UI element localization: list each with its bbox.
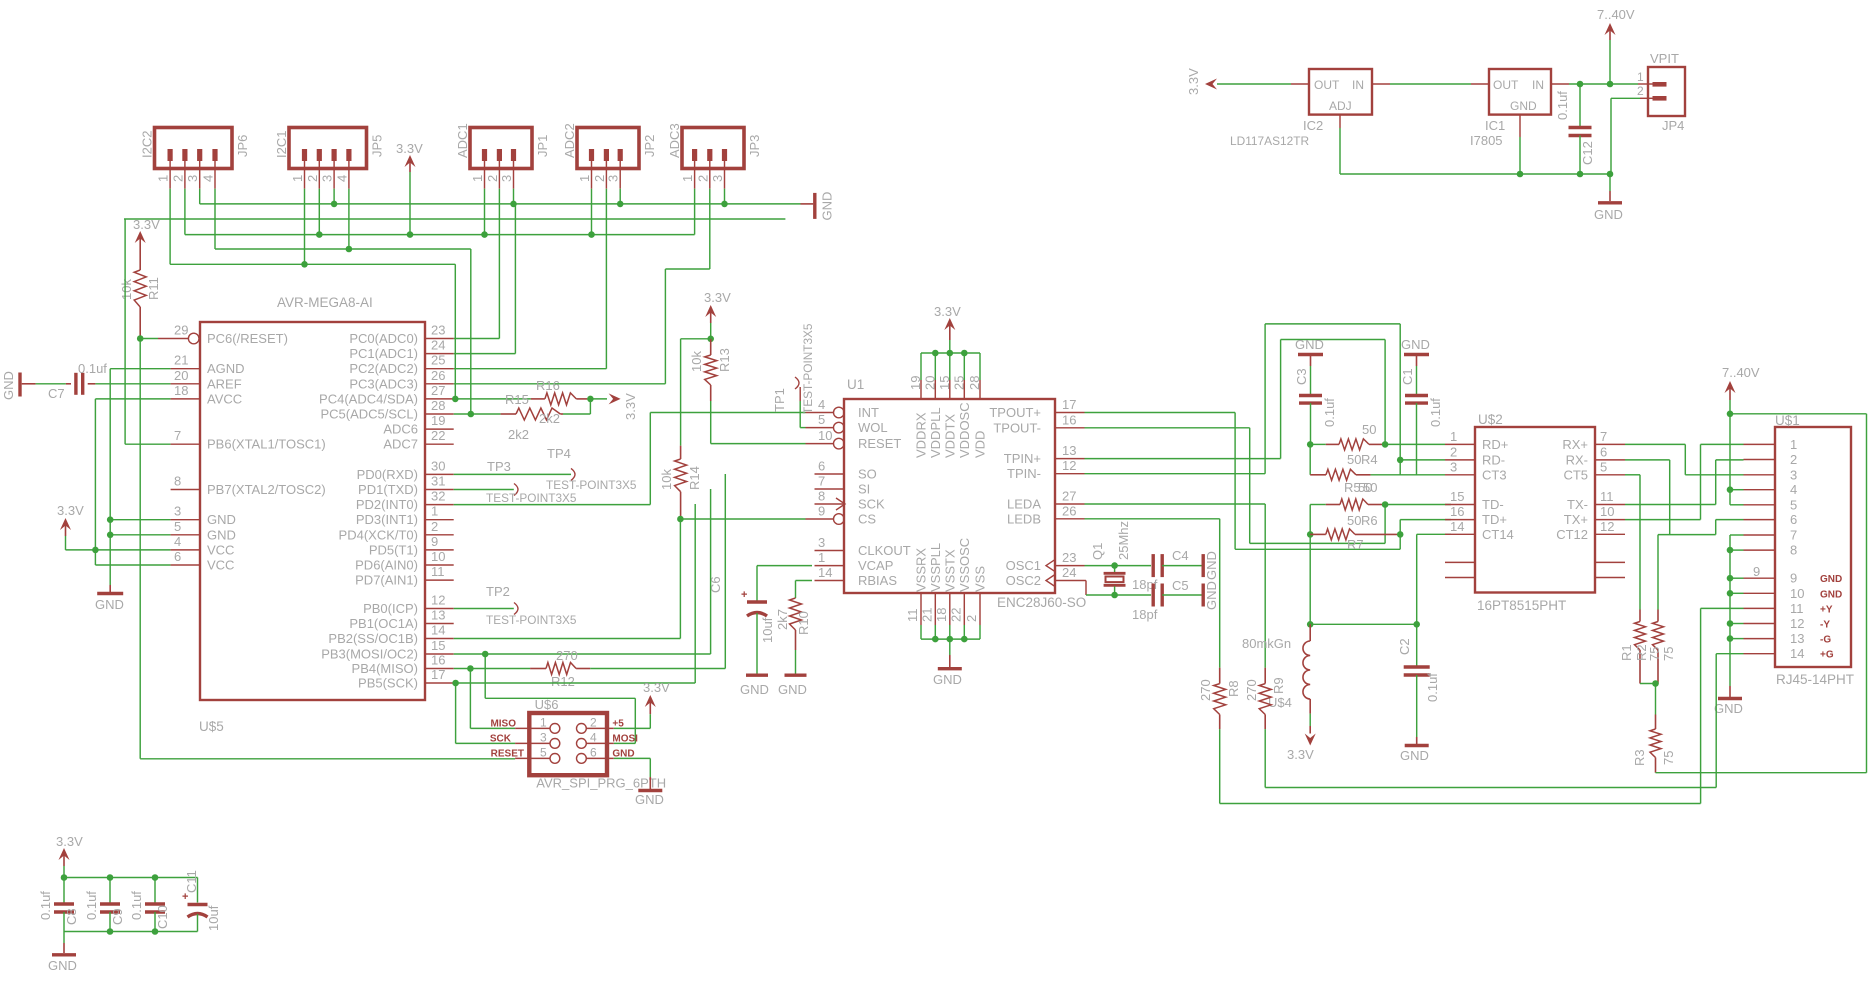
connector JP3 (ADC3) <box>667 123 762 188</box>
svg-text:1: 1 <box>1637 70 1644 84</box>
svg-text:U1: U1 <box>847 377 864 392</box>
ground (C4) <box>1203 551 1219 580</box>
svg-text:TEST-POINT3X5: TEST-POINT3X5 <box>486 491 577 505</box>
svg-text:2: 2 <box>590 716 597 730</box>
svg-text:GND: GND <box>1400 748 1429 763</box>
svg-text:6: 6 <box>174 549 181 564</box>
svg-text:11: 11 <box>905 609 920 623</box>
svg-text:PB3(MOSI/OC2): PB3(MOSI/OC2) <box>321 647 418 662</box>
capacitor C4 18pf <box>1132 548 1189 592</box>
svg-text:1: 1 <box>818 550 825 565</box>
svg-text:50: 50 <box>1347 452 1361 467</box>
svg-text:PC3(ADC3): PC3(ADC3) <box>349 376 418 391</box>
svg-text:3: 3 <box>1790 467 1797 482</box>
svg-text:VDDOSC: VDDOSC <box>957 402 972 458</box>
svg-text:3: 3 <box>320 175 335 182</box>
wire SI riser <box>710 489 712 654</box>
svg-text:28: 28 <box>967 376 982 390</box>
svg-text:19: 19 <box>431 413 445 428</box>
capacitor C12 0.1uf <box>1555 84 1595 165</box>
resistor R4 50 <box>1310 422 1382 467</box>
svg-text:6: 6 <box>818 459 825 474</box>
svg-text:15: 15 <box>1450 489 1464 504</box>
ground (R10) <box>778 675 807 697</box>
svg-text:26: 26 <box>1062 503 1076 518</box>
svg-text:7: 7 <box>1790 528 1797 543</box>
svg-text:VPIT: VPIT <box>1650 51 1679 66</box>
wire SDA riser <box>454 264 456 399</box>
svg-text:TP1: TP1 <box>772 388 787 412</box>
svg-text:R8: R8 <box>1226 680 1241 697</box>
svg-text:3: 3 <box>174 504 181 519</box>
svg-text:TX-: TX- <box>1567 497 1588 512</box>
svg-text:12: 12 <box>1062 458 1076 473</box>
svg-text:2k2: 2k2 <box>508 427 529 442</box>
svg-text:1: 1 <box>156 175 171 182</box>
wire SDA row E <box>170 263 455 265</box>
svg-text:MISO: MISO <box>490 719 516 730</box>
svg-text:3.3V: 3.3V <box>934 304 961 319</box>
svg-text:50: 50 <box>1347 513 1361 528</box>
svg-text:VDDRX: VDDRX <box>914 412 929 458</box>
ground (C7 left) <box>1 371 20 400</box>
svg-text:R14: R14 <box>687 466 702 490</box>
svg-text:R16: R16 <box>536 378 560 393</box>
svg-text:4: 4 <box>174 534 181 549</box>
svg-text:1: 1 <box>540 716 547 730</box>
svg-text:270: 270 <box>1198 679 1213 701</box>
svg-text:CT3: CT3 <box>1482 467 1507 482</box>
svg-text:2: 2 <box>695 175 710 182</box>
svg-text:RD+: RD+ <box>1482 437 1508 452</box>
svg-text:JP3: JP3 <box>747 135 762 157</box>
svg-text:TPOUT-: TPOUT- <box>993 420 1041 435</box>
svg-text:10uf: 10uf <box>760 617 775 643</box>
ground (U$6) <box>635 777 664 807</box>
svg-text:OSC1: OSC1 <box>1006 558 1041 573</box>
svg-text:PD7(AIN1): PD7(AIN1) <box>355 573 418 588</box>
svg-text:R3: R3 <box>1632 749 1647 766</box>
wire TD- to U$2 <box>1385 504 1451 506</box>
svg-text:GND: GND <box>740 682 769 697</box>
svg-text:CT12: CT12 <box>1556 527 1588 542</box>
svg-text:JP5: JP5 <box>370 135 385 157</box>
svg-text:0.1uf: 0.1uf <box>38 891 53 920</box>
svg-text:TP2: TP2 <box>486 584 510 599</box>
svg-text:23: 23 <box>431 323 445 338</box>
svg-text:10uf: 10uf <box>206 905 221 931</box>
svg-text:1: 1 <box>1790 437 1797 452</box>
connector JP5 (I2C1) <box>274 128 385 189</box>
svg-text:14: 14 <box>1790 646 1804 661</box>
wire RD- to U$2 <box>1400 459 1445 461</box>
svg-text:0.1uf: 0.1uf <box>84 891 99 920</box>
svg-text:PD4(XCK/T0): PD4(XCK/T0) <box>339 527 418 542</box>
svg-text:R11: R11 <box>146 277 161 300</box>
svg-text:20: 20 <box>174 368 188 383</box>
U1 left pins <box>806 397 911 588</box>
wire R2 top <box>1657 535 1659 610</box>
svg-text:PC1(ADC1): PC1(ADC1) <box>349 346 418 361</box>
capacitor C5 18pf <box>1132 578 1189 622</box>
svg-text:IN: IN <box>1532 78 1544 92</box>
svg-text:3: 3 <box>710 175 725 182</box>
svg-text:VSS: VSS <box>973 566 988 592</box>
svg-text:R15: R15 <box>505 392 529 407</box>
wire INT0 to U1 INT <box>454 504 651 506</box>
wire TD+ jog <box>1399 520 1401 535</box>
svg-text:TX+: TX+ <box>1564 512 1588 527</box>
wire OSC1 <box>1085 565 1152 567</box>
wire MISO to U$6.1 <box>469 669 471 729</box>
svg-text:VSSOSC: VSSOSC <box>957 538 972 592</box>
wire R9 to RJ45 +G <box>1264 729 1266 787</box>
svg-text:11: 11 <box>431 564 445 579</box>
svg-text:OSC2: OSC2 <box>1006 573 1041 588</box>
svg-text:ADC2: ADC2 <box>562 123 577 158</box>
testpoint TP1 <box>772 323 815 414</box>
svg-text:VSSPLL: VSSPLL <box>928 543 943 592</box>
wire CT5 to R1 <box>1625 474 1640 476</box>
ground (C3) <box>1295 337 1324 366</box>
svg-text:GND: GND <box>1594 207 1623 222</box>
capacitor C3 0.1uf <box>1294 366 1337 427</box>
node CS junction <box>677 516 684 523</box>
svg-text:5: 5 <box>1790 497 1797 512</box>
wire U$6 +5 to 3.3V <box>614 727 651 729</box>
svg-text:C12: C12 <box>1580 141 1595 165</box>
node inductor top <box>1307 621 1314 628</box>
wire PB6/XTAL1 net <box>125 443 171 445</box>
wire GND row A <box>200 203 801 205</box>
svg-text:7..40V: 7..40V <box>1722 365 1760 380</box>
svg-text:AVCC: AVCC <box>207 391 242 406</box>
wire rail to RJ45 pin5 <box>1730 504 1744 506</box>
svg-text:2k2: 2k2 <box>539 411 560 426</box>
svg-text:SCK: SCK <box>490 734 512 745</box>
svg-text:18: 18 <box>174 383 188 398</box>
svg-text:7: 7 <box>818 474 825 489</box>
svg-text:0.1uf: 0.1uf <box>129 891 144 920</box>
testpoint TP2 <box>454 584 577 627</box>
wire PC0 to JP1.2 <box>454 338 500 340</box>
resistor R8 270 <box>1198 668 1241 729</box>
svg-text:VCC: VCC <box>207 542 234 557</box>
svg-text:GND: GND <box>778 682 807 697</box>
svg-text:4: 4 <box>818 397 825 412</box>
svg-text:TPIN-: TPIN- <box>1007 466 1041 481</box>
wire LEDA net <box>1085 503 1266 505</box>
svg-text:JP2: JP2 <box>642 135 657 157</box>
svg-text:9: 9 <box>431 534 438 549</box>
svg-text:10k: 10k <box>659 469 674 490</box>
svg-text:C8: C8 <box>64 908 79 925</box>
svg-text:U$6: U$6 <box>535 697 559 712</box>
svg-text:8: 8 <box>1790 543 1797 558</box>
svg-text:11: 11 <box>1790 601 1804 616</box>
svg-text:TEST-POINT3X5: TEST-POINT3X5 <box>486 613 577 627</box>
svg-text:VDDTX: VDDTX <box>942 414 957 458</box>
svg-text:25Mhz: 25Mhz <box>1116 521 1131 560</box>
svg-text:5: 5 <box>818 412 825 427</box>
svg-text:0.1uf: 0.1uf <box>78 361 107 376</box>
wire RJ45 pin11 +Y <box>1701 607 1744 609</box>
wire 3.3V row C <box>185 234 695 236</box>
svg-text:TD+: TD+ <box>1482 512 1507 527</box>
supply +3.3V (inductor, pointing down) <box>1287 714 1316 762</box>
ground (C2) <box>1400 737 1429 763</box>
svg-text:PB0(ICP): PB0(ICP) <box>363 601 418 616</box>
svg-text:8: 8 <box>174 474 181 489</box>
svg-text:16: 16 <box>431 653 445 668</box>
resistor R6 50 <box>1310 480 1382 528</box>
svg-text:R4: R4 <box>1361 452 1378 467</box>
U1 top power pins <box>908 353 988 458</box>
U1 right pins <box>989 397 1084 588</box>
svg-text:2k7: 2k7 <box>775 609 790 630</box>
wire RX+ to RJ45.3 <box>1625 443 1685 445</box>
svg-text:23: 23 <box>1062 550 1076 565</box>
svg-text:3.3V: 3.3V <box>704 290 731 305</box>
svg-text:GND: GND <box>1 371 16 400</box>
svg-text:22: 22 <box>431 428 445 443</box>
wire CS line <box>680 518 805 520</box>
svg-text:24: 24 <box>1062 565 1076 580</box>
svg-text:R13: R13 <box>717 348 732 372</box>
svg-text:PB1(OC1A): PB1(OC1A) <box>349 616 418 631</box>
supply +3.3V (VCC left) <box>57 503 84 536</box>
svg-text:270: 270 <box>1244 679 1259 701</box>
supply +3.3V (U$6) <box>643 680 670 714</box>
svg-text:GND: GND <box>1204 551 1219 580</box>
wire VCAP to C6 <box>757 565 812 567</box>
svg-text:PB7(XTAL2/TOSC2): PB7(XTAL2/TOSC2) <box>207 482 326 497</box>
svg-text:12: 12 <box>1790 616 1804 631</box>
wire TX- to RJ45.2 <box>1625 504 1716 506</box>
svg-text:VCAP: VCAP <box>858 558 893 573</box>
supply +3.3V (I2C pullups) <box>590 393 638 420</box>
wire PC1 to riser <box>454 353 516 355</box>
svg-text:5: 5 <box>174 519 181 534</box>
svg-text:6: 6 <box>590 746 597 760</box>
svg-text:GND: GND <box>207 512 236 527</box>
svg-text:OUT: OUT <box>1493 78 1519 92</box>
svg-text:R1: R1 <box>1619 644 1634 661</box>
svg-text:7..40V: 7..40V <box>1597 7 1635 22</box>
svg-text:TPOUT+: TPOUT+ <box>989 405 1041 420</box>
capacitor C10 0.1uf <box>129 878 170 932</box>
connector U$1 RJ45-14PHT <box>1775 413 1854 687</box>
svg-text:PD5(T1): PD5(T1) <box>369 542 418 557</box>
svg-text:AGND: AGND <box>207 361 245 376</box>
capacitor C8 0.1uf <box>38 878 79 932</box>
wire cap bank bottom rail <box>64 931 198 933</box>
svg-text:27: 27 <box>431 383 445 398</box>
svg-text:OUT: OUT <box>1314 78 1340 92</box>
wire reset net down to U$6 <box>139 339 141 759</box>
connector JP2 (ADC2) <box>562 123 657 188</box>
supply 7..40V (RJ45) <box>1722 365 1760 400</box>
svg-text:I2C2: I2C2 <box>140 131 155 158</box>
svg-text:PD0(RXD): PD0(RXD) <box>357 467 418 482</box>
wire CT14 jog <box>1417 533 1451 535</box>
capacitor C2 0.1uf <box>1397 624 1440 702</box>
svg-text:GND: GND <box>1401 337 1430 352</box>
svg-text:PC5(ADC5/SCL): PC5(ADC5/SCL) <box>320 407 418 422</box>
U$2 unconnected stubs <box>1445 562 1625 577</box>
svg-text:16: 16 <box>1450 504 1464 519</box>
wire PC1 riser <box>514 204 516 354</box>
svg-text:13: 13 <box>431 608 445 623</box>
svg-text:20: 20 <box>922 376 937 390</box>
supply +3.3V (regulator output, arrow left) <box>1186 68 1217 95</box>
svg-text:PD1(TXD): PD1(TXD) <box>358 482 418 497</box>
svg-text:9: 9 <box>1753 564 1760 579</box>
wire CT3 line <box>1371 474 1445 476</box>
svg-text:3.3V: 3.3V <box>133 217 160 232</box>
svg-text:2: 2 <box>1637 84 1644 98</box>
node RD- junction <box>1397 457 1404 464</box>
svg-text:12: 12 <box>431 593 445 608</box>
svg-text:0.1uf: 0.1uf <box>1428 398 1443 427</box>
svg-text:RD-: RD- <box>1482 452 1505 467</box>
capacitor C9 0.1uf <box>84 878 125 932</box>
svg-text:ADC3: ADC3 <box>667 123 682 158</box>
svg-text:TEST-POINT3X5: TEST-POINT3X5 <box>546 478 637 492</box>
ground (RJ45 rail) <box>1714 686 1743 716</box>
svg-text:RBIAS: RBIAS <box>858 573 897 588</box>
wire RESET pullup to U1 <box>711 443 806 445</box>
svg-text:4: 4 <box>590 731 597 745</box>
U$2 left pins <box>1445 429 1514 542</box>
svg-text:31: 31 <box>431 474 445 489</box>
svg-text:PD2(INT0): PD2(INT0) <box>356 497 418 512</box>
svg-text:1: 1 <box>577 175 592 182</box>
svg-text:-G: -G <box>1820 635 1831 646</box>
svg-text:3.3V: 3.3V <box>623 393 638 420</box>
wire SCL row D <box>215 248 471 250</box>
svg-text:17: 17 <box>431 667 445 682</box>
svg-text:INT: INT <box>858 405 879 420</box>
svg-text:ADJ: ADJ <box>1329 99 1352 113</box>
svg-text:2: 2 <box>305 175 320 182</box>
wire RX- to RJ45.6 <box>1625 459 1670 461</box>
IC2 LD117AS12TR <box>1230 69 1372 148</box>
svg-text:GND: GND <box>933 672 962 687</box>
U1 bottom power pins <box>905 538 988 639</box>
svg-text:MOSI: MOSI <box>612 734 638 745</box>
wire JP4 pin1 <box>1638 83 1653 85</box>
svg-text:VCC: VCC <box>207 558 234 573</box>
svg-text:VDDPLL: VDDPLL <box>928 407 943 458</box>
wire GND rail down RJ45 (lower segment) <box>1729 535 1731 686</box>
svg-text:IC2: IC2 <box>1303 118 1323 133</box>
svg-text:SI: SI <box>858 482 870 497</box>
wire pin29 stub <box>140 338 158 340</box>
svg-text:+: + <box>741 589 747 601</box>
svg-text:ADC6: ADC6 <box>383 422 418 437</box>
inductor U$4 80mkGn <box>1242 624 1310 713</box>
svg-text:Q1: Q1 <box>1090 543 1105 560</box>
svg-text:ADC7: ADC7 <box>383 437 418 452</box>
connector U$6 AVR_SPI_PRG_6PTH <box>490 697 666 791</box>
svg-text:19: 19 <box>908 376 923 390</box>
svg-text:JP4: JP4 <box>1662 118 1684 133</box>
svg-text:RX+: RX+ <box>1562 437 1588 452</box>
svg-text:C3: C3 <box>1294 368 1309 385</box>
resistor R15 2k2 <box>501 392 563 442</box>
svg-text:75: 75 <box>1647 647 1662 661</box>
svg-text:GND: GND <box>1204 581 1219 610</box>
wire SCK to U$6.3 <box>455 683 457 743</box>
svg-text:10k: 10k <box>689 351 704 372</box>
svg-text:GND: GND <box>1820 589 1842 600</box>
supply +3.3V (R11) <box>133 217 160 251</box>
wire 3.3V arrow to row C <box>409 172 411 235</box>
wire TX+ to RJ45.1 <box>1625 519 1701 521</box>
svg-text:GND: GND <box>48 958 77 973</box>
connector JP6 (I2C2) <box>140 128 251 189</box>
svg-text:11: 11 <box>1600 489 1614 504</box>
svg-text:SO: SO <box>858 467 877 482</box>
wire PC3 jog <box>665 268 709 270</box>
svg-text:18pf: 18pf <box>1132 607 1158 622</box>
svg-text:3: 3 <box>499 175 514 182</box>
svg-text:18: 18 <box>934 608 949 622</box>
svg-text:GND: GND <box>207 527 236 542</box>
svg-text:3.3V: 3.3V <box>643 680 670 695</box>
svg-text:4: 4 <box>1790 482 1797 497</box>
supply +3.3V (U1) <box>934 304 961 340</box>
resistor R12 270 <box>530 648 590 689</box>
svg-text:C5: C5 <box>1172 578 1189 593</box>
crystal Q1 25Mhz <box>1090 521 1131 595</box>
svg-text:2: 2 <box>964 615 979 622</box>
svg-text:AVR_SPI_PRG_6PTH: AVR_SPI_PRG_6PTH <box>536 776 666 791</box>
svg-text:5: 5 <box>1600 459 1607 474</box>
svg-text:21: 21 <box>174 353 188 368</box>
svg-text:13: 13 <box>1790 631 1804 646</box>
ground (power section) <box>1594 171 1623 222</box>
svg-text:6: 6 <box>1790 512 1797 527</box>
svg-text:-Y: -Y <box>1820 620 1830 631</box>
resistor R7 50 <box>1310 529 1397 552</box>
wire AVCC net <box>95 398 170 400</box>
wire RJ45 pin14 +G <box>1716 653 1743 655</box>
svg-text:GND: GND <box>1714 701 1743 716</box>
svg-text:17: 17 <box>1062 397 1076 412</box>
svg-text:TPIN+: TPIN+ <box>1004 451 1041 466</box>
wire LEDB net <box>1085 518 1220 520</box>
testpoint TP3 <box>454 459 637 492</box>
svg-text:10: 10 <box>1790 586 1804 601</box>
resistor R5 50 <box>1310 469 1372 495</box>
svg-text:1: 1 <box>1450 429 1457 444</box>
svg-text:5: 5 <box>540 746 547 760</box>
wire RD+ to U$2 <box>1385 443 1445 445</box>
svg-text:14: 14 <box>818 565 832 580</box>
wire PB4/MISO row + R12 <box>454 668 471 670</box>
wire U1 VDD rail <box>921 352 980 354</box>
svg-text:7: 7 <box>1600 429 1607 444</box>
svg-text:50: 50 <box>1362 422 1376 437</box>
svg-text:21: 21 <box>919 608 934 622</box>
svg-text:12: 12 <box>1600 519 1614 534</box>
node reset junction pin29 <box>137 335 144 342</box>
svg-text:AVR-MEGA8-AI: AVR-MEGA8-AI <box>277 295 373 310</box>
svg-text:RESET: RESET <box>858 436 901 451</box>
wire PB2/SS to CS riser <box>454 638 681 640</box>
